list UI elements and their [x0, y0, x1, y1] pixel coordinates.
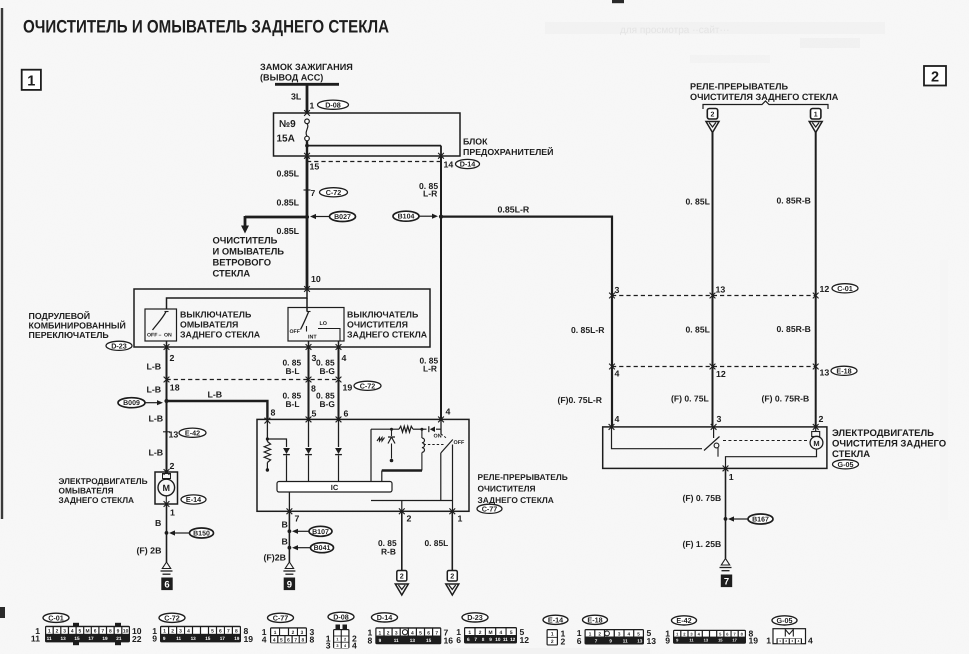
ground splice B150	[174, 532, 190, 534]
connector E-18 dashed line	[612, 366, 816, 368]
relay internal: contact lever	[441, 440, 453, 454]
svg-text:19: 19	[234, 636, 240, 641]
svg-text:3: 3	[179, 629, 182, 635]
svg-text:С-77: С-77	[482, 504, 498, 513]
relay internal: IC to pin 7	[288, 492, 290, 511]
svg-text:3: 3	[63, 629, 66, 635]
svg-text:5: 5	[419, 630, 422, 636]
svg-text:5: 5	[280, 637, 283, 643]
fuse box pin 15 exit mark	[304, 153, 310, 159]
svg-text:C-72: C-72	[326, 188, 342, 197]
svg-text:L-B: L-B	[147, 385, 162, 395]
wire from fuse to pin 14	[307, 145, 441, 147]
svg-text:8: 8	[109, 629, 112, 635]
relay internal: pin5 wire and diode D2	[308, 419, 310, 447]
svg-text:6: 6	[344, 409, 349, 419]
branch wire to windshield circuits	[245, 216, 307, 219]
fuse box pin entry mark	[304, 110, 310, 116]
svg-text:13: 13	[410, 638, 416, 643]
ground symbol relay	[285, 562, 293, 569]
wire 0.85L terminal2 down	[712, 132, 714, 427]
svg-text:ОЧИСТИТЕЛЯ ЗАДНЕГО СТЕКЛА: ОЧИСТИТЕЛЯ ЗАДНЕГО СТЕКЛА	[690, 92, 839, 102]
ground point 9	[284, 578, 295, 591]
svg-text:КОМБИНИРОВАННЫЙ: КОМБИНИРОВАННЫЙ	[29, 321, 126, 331]
svg-text:(ВЫВОД АСС): (ВЫВОД АСС)	[260, 73, 323, 83]
svg-text:2: 2	[551, 639, 554, 645]
svg-text:D-23: D-23	[467, 613, 483, 622]
washer switch SW1 box	[145, 309, 177, 341]
connector C-72 oval	[320, 188, 348, 197]
svg-text:ОЧИСТИТЕЛЯ: ОЧИСТИТЕЛЯ	[347, 320, 408, 330]
svg-text:13: 13	[647, 636, 657, 646]
svg-text:В: В	[282, 537, 288, 547]
svg-text:OFF: OFF	[454, 440, 465, 446]
wiper switch LO contact and link to pin 4	[318, 329, 340, 342]
combination switch box outline	[134, 289, 430, 347]
relay internal: bottom bus	[371, 500, 453, 502]
svg-text:11: 11	[31, 634, 40, 644]
svg-text:11: 11	[503, 637, 508, 642]
svg-text:19: 19	[343, 383, 353, 393]
wire 0.85R-B relay pin2 down	[401, 511, 403, 570]
svg-text:(F) 2В: (F) 2В	[137, 546, 162, 556]
relay internal: pivot to pin 2	[440, 453, 442, 501]
relay internal: pin6 wire and diode D3	[338, 419, 340, 447]
svg-text:0.85L-R: 0.85L-R	[498, 205, 530, 215]
svg-text:1: 1	[163, 629, 166, 635]
node B041 junction	[288, 546, 292, 550]
svg-text:G-05: G-05	[777, 616, 793, 625]
svg-text:E-42: E-42	[185, 428, 200, 437]
wire 0.85L-R down to motor	[611, 296, 613, 427]
svg-text:9: 9	[665, 636, 670, 646]
svg-text:1: 1	[274, 630, 277, 636]
svg-text:2: 2	[170, 353, 175, 363]
scan edge artifact: left border line	[1, 8, 3, 519]
svg-text:1: 1	[170, 508, 175, 518]
svg-text:12: 12	[820, 284, 830, 294]
svg-text:D-08: D-08	[325, 100, 341, 109]
node after fuse	[305, 144, 309, 148]
svg-text:12: 12	[716, 369, 726, 379]
svg-text:8: 8	[235, 629, 238, 635]
svg-text:7: 7	[295, 514, 300, 524]
relay internal: coil to IC bar	[382, 469, 422, 472]
svg-text:Е-18: Е-18	[836, 366, 851, 375]
svg-text:13: 13	[820, 368, 830, 378]
svg-text:14: 14	[444, 160, 454, 170]
motor internal: pin3 wire	[713, 427, 715, 438]
svg-text:6: 6	[94, 629, 97, 635]
wire L-B to relay pin 8	[167, 401, 268, 421]
svg-text:2: 2	[292, 630, 295, 636]
motor pin 1 exit	[723, 466, 729, 472]
ground point 6	[161, 578, 172, 591]
svg-text:ОМЫВАТЕЛЯ: ОМЫВАТЕЛЯ	[59, 486, 114, 496]
svg-text:3: 3	[301, 630, 304, 636]
connector C-72 pinout	[152, 613, 253, 644]
svg-text:11: 11	[623, 638, 628, 643]
connector E-42 pinout	[665, 616, 758, 646]
svg-text:9: 9	[489, 637, 492, 642]
wire 0.85B-L pin3 down	[308, 347, 310, 419]
svg-text:2: 2	[819, 414, 824, 424]
svg-text:4: 4	[262, 635, 267, 645]
svg-text:Е-42: Е-42	[676, 616, 691, 625]
svg-text:Е-18: Е-18	[587, 615, 602, 624]
wire inside fuse box	[306, 141, 308, 156]
svg-text:8: 8	[482, 637, 485, 642]
svg-text:B-L: B-L	[286, 366, 300, 376]
svg-text:D-08: D-08	[333, 612, 349, 621]
ground symbol rear wiper motor	[721, 559, 729, 566]
svg-text:0.85L: 0.85L	[277, 226, 300, 236]
svg-text:8: 8	[310, 635, 315, 645]
svg-text:В107: В107	[312, 529, 329, 536]
svg-text:1: 1	[458, 514, 463, 524]
node main feed junction	[305, 215, 309, 219]
motor internal: park switch pivot	[714, 443, 719, 448]
svg-text:ОЧИСТИТЕЛЬ И ОМЫВАТЕЛЬ ЗАДНЕГО: ОЧИСТИТЕЛЬ И ОМЫВАТЕЛЬ ЗАДНЕГО СТЕКЛА	[23, 17, 389, 37]
svg-text:5: 5	[312, 409, 317, 419]
svg-text:М: М	[488, 630, 492, 636]
svg-text:10: 10	[311, 274, 321, 284]
scan edge artifact: top dash	[612, 0, 624, 3]
svg-text:D-14: D-14	[460, 160, 476, 169]
connector C-77 pinout	[262, 613, 315, 644]
switch box pin 2 exit mark	[164, 344, 170, 350]
svg-text:2: 2	[344, 638, 346, 642]
connector C-01 pinout	[31, 613, 142, 645]
svg-text:ОМЫВАТЕЛЯ: ОМЫВАТЕЛЯ	[180, 320, 238, 330]
svg-text:9: 9	[609, 638, 612, 643]
relay internal: relay coil K1	[420, 428, 423, 431]
svg-text:6: 6	[467, 637, 470, 642]
svg-text:3: 3	[395, 630, 398, 636]
wire inside switch box	[167, 289, 308, 309]
svg-text:В: В	[282, 520, 288, 530]
wiper switch lever	[301, 312, 309, 330]
connector D-23 pinout	[456, 613, 529, 645]
svg-text:В041: В041	[314, 545, 331, 552]
svg-text:ЗАДНЕГО СТЕКЛА: ЗАДНЕГО СТЕКЛА	[347, 330, 428, 340]
svg-text:4: 4	[352, 641, 357, 651]
svg-text:9: 9	[152, 634, 157, 644]
svg-text:6: 6	[456, 635, 461, 645]
ignition bus bar	[275, 83, 339, 86]
svg-text:БЛОК: БЛОК	[463, 137, 488, 147]
connector D-23 oval	[106, 341, 132, 350]
svg-text:5: 5	[211, 629, 214, 635]
svg-text:ПОДРУЛЕВОЙ: ПОДРУЛЕВОЙ	[29, 311, 91, 321]
wire 0.85L-R pin14 down to relay	[440, 156, 442, 420]
connector E-42 oval	[179, 428, 206, 437]
wiper switch SW2 box	[288, 308, 344, 342]
svg-text:9: 9	[163, 636, 166, 641]
node B150 junction	[165, 531, 169, 535]
wiper switch INT contact	[306, 326, 308, 332]
wire F 0.75B motor to ground	[725, 468, 727, 558]
rear wiper relay box outline	[257, 419, 469, 511]
svg-text:1: 1	[766, 636, 771, 646]
svg-text:1: 1	[551, 632, 554, 638]
svg-text:15: 15	[718, 638, 723, 643]
off-page connector to page 2 (pin 1)	[447, 571, 457, 582]
svg-text:(F)2В: (F)2В	[264, 553, 286, 563]
svg-text:ОЧИСТИТЕЛЬ: ОЧИСТИТЕЛЬ	[213, 235, 278, 246]
relay terminal 1 from page 1	[811, 109, 821, 120]
svg-text:3: 3	[326, 641, 331, 651]
svg-text:2: 2	[598, 631, 601, 636]
page marker 2	[924, 66, 946, 86]
connector C-72 oval	[354, 381, 381, 390]
connector G-05 oval	[833, 460, 859, 469]
svg-text:№9: №9	[279, 119, 296, 130]
svg-text:ON: ON	[434, 434, 442, 440]
wire 0.85L-R to rear wiper motor column	[441, 217, 612, 296]
relay pin 2 exit	[399, 508, 405, 514]
svg-text:В: В	[155, 518, 161, 528]
svg-text:B009: B009	[123, 400, 140, 407]
svg-text:ON: ON	[164, 333, 172, 339]
svg-text:L-R: L-R	[423, 189, 438, 199]
svg-text:В150: В150	[193, 531, 210, 538]
svg-text:9: 9	[287, 580, 292, 591]
connector E-14 pinout	[543, 615, 568, 646]
svg-text:B027: B027	[334, 214, 351, 221]
svg-text:4: 4	[628, 631, 631, 636]
fuse box outline	[274, 113, 461, 156]
svg-text:2: 2	[407, 514, 412, 524]
svg-text:4: 4	[342, 353, 347, 363]
rear wiper motor box outline	[603, 427, 827, 469]
ground point 7	[721, 575, 732, 588]
svg-text:ЗАДНЕГО СТЕКЛА: ЗАДНЕГО СТЕКЛА	[59, 495, 135, 505]
svg-text:1: 1	[27, 74, 35, 90]
svg-text:6: 6	[427, 630, 430, 636]
svg-text:1: 1	[468, 630, 471, 636]
svg-text:17: 17	[220, 636, 226, 641]
svg-text:17: 17	[88, 636, 94, 641]
splice B009 with arrow	[145, 402, 159, 404]
wire 0.85R-B terminal1 down	[815, 132, 817, 427]
svg-text:13: 13	[704, 638, 709, 643]
svg-text:8: 8	[368, 635, 373, 645]
relay internal: oscillator frame	[370, 429, 372, 481]
motor internal: dashed link to motor	[723, 440, 808, 442]
wire into combination switch	[306, 217, 309, 289]
svg-text:3: 3	[615, 285, 620, 295]
relay internal: diode D4	[430, 427, 435, 433]
svg-text:12: 12	[510, 637, 516, 642]
motor internal: motor to pin1 path	[726, 449, 817, 468]
svg-text:6: 6	[219, 629, 222, 635]
relay internal: IC box	[277, 482, 392, 493]
svg-text:СТЕКЛА: СТЕКЛА	[213, 268, 251, 279]
svg-text:4: 4	[273, 637, 276, 643]
svg-text:3L: 3L	[291, 92, 302, 102]
svg-text:2: 2	[400, 572, 404, 581]
svg-text:ВЕТРОВОГО: ВЕТРОВОГО	[213, 257, 271, 268]
node L-B junction	[164, 399, 168, 403]
svg-text:С-77: С-77	[273, 613, 289, 622]
svg-text:0. 85R-В: 0. 85R-В	[777, 324, 811, 334]
svg-text:0.85L: 0.85L	[277, 198, 300, 208]
connector D-14 oval	[456, 159, 480, 168]
pin 13 tick of E-42	[163, 431, 170, 433]
svg-text:6: 6	[577, 636, 582, 646]
svg-text:ОЧИСТИТЕЛЯ ЗАДНЕГО: ОЧИСТИТЕЛЯ ЗАДНЕГО	[832, 439, 946, 450]
svg-text:5: 5	[510, 630, 513, 636]
svg-text:13: 13	[191, 636, 197, 641]
svg-text:(F) 1. 25В: (F) 1. 25В	[683, 539, 722, 549]
svg-text:ЭЛЕКТРОДВИГАТЕЛЬ: ЭЛЕКТРОДВИГАТЕЛЬ	[832, 428, 934, 439]
wire B relay pin7 to ground	[288, 511, 290, 562]
svg-text:3: 3	[717, 414, 722, 424]
svg-text:1: 1	[729, 472, 734, 482]
svg-text:М: М	[163, 483, 171, 493]
svg-text:9: 9	[117, 629, 120, 635]
svg-text:B104: B104	[398, 214, 415, 221]
connector E-18 pinout	[577, 615, 657, 646]
svg-text:1: 1	[336, 638, 338, 642]
svg-text:21: 21	[116, 636, 122, 641]
relay pin 7 exit	[287, 508, 293, 514]
svg-text:0. 85R-В: 0. 85R-В	[777, 196, 811, 206]
connector D-08 pinout	[326, 612, 357, 650]
svg-text:12: 12	[520, 635, 530, 645]
svg-text:16: 16	[444, 635, 454, 645]
wire L-B pin2 down	[166, 347, 168, 472]
connector C-72 dashed line	[167, 379, 339, 381]
svg-text:11: 11	[47, 636, 52, 641]
svg-text:4: 4	[446, 407, 451, 417]
svg-text:1: 1	[48, 629, 51, 635]
svg-text:7: 7	[724, 577, 729, 588]
svg-text:2: 2	[387, 630, 390, 636]
svg-text:2: 2	[479, 630, 482, 636]
svg-text:В167: В167	[752, 517, 769, 524]
splice B104	[419, 215, 434, 217]
svg-text:И ОМЫВАТЕЛЬ: И ОМЫВАТЕЛЬ	[213, 246, 285, 257]
motor internal: park switch lever	[704, 437, 720, 451]
svg-text:0. 85L: 0. 85L	[425, 538, 449, 548]
svg-text:3: 3	[618, 631, 621, 636]
svg-text:4: 4	[615, 369, 620, 379]
svg-text:0. 85L: 0. 85L	[686, 325, 710, 335]
svg-text:7: 7	[227, 629, 230, 635]
node B167 junction	[724, 517, 728, 521]
svg-text:L-R: L-R	[423, 364, 437, 374]
svg-text:15: 15	[74, 636, 80, 641]
connector dashed line under fuse box	[307, 161, 441, 163]
wire B washer motor to ground	[166, 504, 168, 562]
svg-text:ОЧИСТИТЕЛЯ: ОЧИСТИТЕЛЯ	[478, 484, 536, 494]
motor internal: pin4 path	[612, 427, 703, 449]
svg-text:13: 13	[637, 638, 643, 643]
svg-text:7: 7	[474, 637, 477, 642]
page marker 1	[22, 70, 41, 90]
connector C-01 dashed line	[612, 295, 816, 297]
connector G-05 pinout	[766, 616, 813, 646]
svg-text:OFF: OFF	[290, 329, 300, 335]
svg-text:1: 1	[310, 101, 315, 111]
svg-text:2: 2	[171, 629, 174, 635]
svg-text:0. 85L: 0. 85L	[686, 197, 710, 207]
svg-text:2: 2	[450, 572, 454, 581]
svg-text:2: 2	[170, 461, 175, 471]
svg-text:0.85L: 0.85L	[277, 169, 300, 179]
svg-text:L-B: L-B	[208, 390, 223, 400]
connector C-77 oval	[477, 504, 502, 513]
wires inside to pins	[166, 341, 168, 347]
svg-text:Е-14: Е-14	[186, 495, 201, 504]
svg-text:М: М	[85, 629, 89, 635]
svg-text:6: 6	[287, 637, 290, 643]
svg-text:РЕЛЕ-ПРЕРЫВАТЕЛЬ: РЕЛЕ-ПРЕРЫВАТЕЛЬ	[478, 472, 568, 482]
svg-text:19: 19	[102, 636, 108, 641]
fuse box pin 14 exit mark	[438, 153, 444, 159]
svg-text:8: 8	[301, 637, 304, 643]
svg-text:1: 1	[589, 631, 592, 636]
svg-text:B-L: B-L	[286, 399, 300, 409]
ground splice B167	[733, 518, 749, 520]
svg-text:–: –	[159, 333, 162, 339]
relay internal: top rail to pin 4	[371, 428, 399, 430]
svg-text:9: 9	[379, 638, 382, 643]
svg-text:B-G: B-G	[320, 366, 335, 376]
svg-text:2: 2	[561, 636, 566, 646]
relay internal: resistor R2	[399, 426, 413, 432]
svg-text:R-В: R-В	[381, 547, 396, 557]
svg-text:8: 8	[271, 408, 276, 418]
svg-text:18: 18	[170, 383, 180, 393]
svg-text:15: 15	[310, 162, 320, 172]
svg-text:C-72: C-72	[360, 381, 376, 390]
motor internal: pin2 wire and terminal	[815, 427, 817, 432]
svg-text:СТЕКЛА: СТЕКЛА	[832, 449, 870, 460]
switch box pin 4 exit mark	[336, 344, 342, 350]
svg-text:D-23: D-23	[111, 341, 127, 350]
svg-text:10: 10	[123, 629, 129, 635]
rear wiper motor M2 symbol	[810, 436, 823, 449]
relay terminal 2 from page 1	[707, 109, 717, 120]
relay internal: lever dashed link	[424, 444, 445, 446]
connector D-14 pinout	[368, 613, 454, 646]
svg-text:1: 1	[379, 630, 382, 636]
scan edge artifact: bottom-left blob	[0, 607, 5, 618]
svg-text:Е-14: Е-14	[548, 615, 563, 624]
svg-text:(F) 0. 75В: (F) 0. 75В	[683, 493, 722, 503]
svg-text:для просмотра ··сайт···: для просмотра ··сайт···	[620, 25, 729, 36]
svg-text:17: 17	[732, 638, 737, 643]
wire 0.85L relay pin1 down	[451, 511, 453, 570]
svg-text:L-B: L-B	[147, 362, 162, 372]
svg-text:7: 7	[595, 638, 598, 643]
washer motor M1 symbol	[163, 474, 171, 479]
relay internal: OFF contact to pin 1	[452, 445, 454, 512]
connector E-14 oval	[181, 495, 206, 504]
svg-text:13: 13	[716, 285, 726, 295]
svg-text:ПЕРЕКЛЮЧАТЕЛЬ: ПЕРЕКЛЮЧАТЕЛЬ	[29, 330, 110, 340]
svg-text:С-72: С-72	[164, 613, 180, 622]
svg-text:INT: INT	[308, 335, 317, 341]
svg-text:7: 7	[435, 630, 438, 636]
svg-text:4: 4	[71, 629, 74, 635]
svg-text:4: 4	[187, 629, 190, 635]
svg-text:РЕЛЕ-ПРЕРЫВАТЕЛЬ: РЕЛЕ-ПРЕРЫВАТЕЛЬ	[690, 82, 788, 92]
combination switch pin 10 entry mark	[304, 286, 310, 292]
